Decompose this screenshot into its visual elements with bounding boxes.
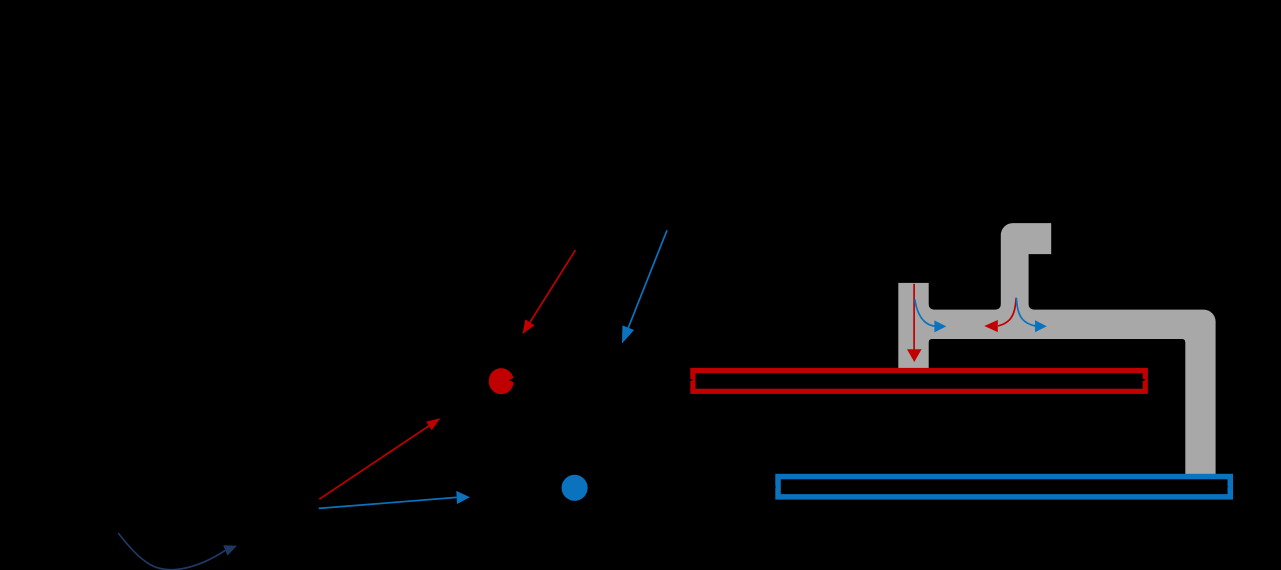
- blue curved arrow at left pipe junction: [915, 300, 946, 333]
- pipe fillet at right elbow inner corner: [1182, 337, 1187, 343]
- pipe fillet at hook left junction: [996, 305, 1003, 312]
- pipe: left vertical supply pipe: [898, 283, 928, 371]
- black arrow tip notch over red rect left border: [687, 377, 693, 382]
- pipe fillet at hook right junction: [1027, 305, 1034, 312]
- blue leader arrow from label (lower left, pointing right): [319, 491, 470, 509]
- pipe fillet at left pipe top junction: [927, 305, 934, 312]
- navy curved arrow at bottom left: [118, 533, 237, 570]
- red dot (warm air): [489, 368, 514, 394]
- blue leader arrow to blue dot (from above): [622, 230, 667, 343]
- black arrow tip notch over blue rect left border: [772, 485, 777, 490]
- red leader arrow to red dot (from above): [523, 250, 576, 334]
- blue curved arrow under hook (flow right): [1016, 298, 1046, 332]
- red leader arrow from label (lower left, pointing up-right): [319, 418, 440, 499]
- blue radiator rectangle (floor heating): [778, 477, 1230, 497]
- pipe: top hook vent pipe: [1001, 223, 1051, 312]
- pipe fillet at left pipe bottom junction: [927, 337, 932, 343]
- red down arrow in left pipe: [907, 284, 922, 362]
- red radiator rectangle (ceiling heating): [693, 371, 1145, 392]
- pipe: main horizontal pipe with right elbow and down pipe: [926, 310, 1216, 476]
- black arrow tip notch over blue rect right border: [1223, 484, 1228, 489]
- red curved arrow under hook (flow left): [984, 298, 1016, 332]
- black arrow tip notch over red rect right border: [1140, 377, 1146, 383]
- blue dot (cool air): [562, 475, 588, 501]
- black arrow tip notch over red dot: [509, 378, 515, 383]
